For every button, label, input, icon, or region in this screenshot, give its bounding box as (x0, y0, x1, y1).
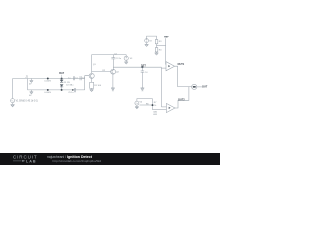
ground (on bottom rail) (29, 90, 33, 97)
voltage source V2 (145, 39, 153, 43)
wire top rail (13, 78, 85, 80)
svg-text:R4: R4 (159, 49, 163, 51)
wire Q1 collector (91, 55, 93, 74)
wire V4 to node (140, 104, 153, 106)
wire bottom rail (28, 89, 85, 91)
svg-text:Q2: Q2 (116, 72, 120, 74)
CircuitLab logo (13, 154, 38, 163)
capacitor C5 (75, 88, 76, 92)
wire junction J1 vertical between rails (27, 79, 29, 90)
transistor Q2 (111, 69, 120, 74)
resistor R3 (155, 40, 162, 44)
wire U1 output (175, 66, 192, 86)
footer bar (0, 153, 220, 165)
diode D2 (60, 85, 72, 90)
transistor Q1 (89, 64, 96, 78)
svg-text:C4: C4 (145, 72, 149, 74)
wire V4 top loop (137, 99, 153, 102)
ground (on top rail) (29, 79, 33, 86)
svg-text:0.000V: 0.000V (44, 92, 51, 94)
capacitor C1 (73, 76, 74, 80)
voltage source V4 (135, 101, 143, 105)
wire V2 to divider (147, 36, 157, 39)
svg-text:V1 SIN(0 0.45 1k 0 0): V1 SIN(0 0.45 1k 0 0) (16, 101, 38, 103)
ground (below V3) (124, 60, 128, 64)
svg-text:D1 1N: D1 1N (64, 82, 70, 84)
node J1 flag (25, 76, 28, 78)
junction dot node E (152, 104, 154, 106)
wire signal drop to U2 (160, 67, 162, 107)
svg-text:1u: 1u (71, 85, 73, 87)
junction dot 2 bottom rail (72, 89, 74, 91)
ground (below C4) (141, 88, 145, 91)
wire tap to op-amp plus input (165, 38, 167, 64)
svg-text:DET: DET (141, 65, 146, 68)
wire U2 output (175, 87, 189, 108)
wire Q1 collector to Q2 base (92, 71, 111, 73)
svg-text:BAT: BAT (59, 72, 64, 75)
ground (below V4) (135, 105, 139, 109)
svg-text:V2: V2 (149, 40, 152, 42)
node A (dot on top rail) (44, 78, 51, 83)
wire Q1 emitter (91, 78, 93, 82)
svg-text:http://circuitlab.com/c/21q21p: http://circuitlab.com/c/21q21p6uv5k2 (53, 159, 102, 163)
voltage source V1 (11, 99, 38, 103)
op-amp U2 (166, 103, 175, 112)
capacitor C2 (80, 76, 85, 80)
svg-text:REF: REF (164, 37, 169, 39)
svg-text:C3 1u: C3 1u (116, 58, 121, 60)
junction dot bottom rail (61, 89, 63, 91)
svg-text:Q1: Q1 (93, 64, 97, 66)
svg-text:0.000V: 0.000V (44, 80, 51, 82)
op-amp U1 (166, 62, 175, 71)
svg-text:R7: R7 (154, 102, 158, 104)
indicator lamp LED1 (192, 84, 197, 89)
wire lamp output (197, 86, 202, 88)
svg-text:OUT1: OUT1 (178, 63, 185, 66)
voltage source V3 (124, 55, 133, 61)
ground (below V2) (145, 43, 149, 47)
svg-text:LAB: LAB (26, 160, 37, 164)
svg-text:R3: R3 (159, 41, 163, 43)
ground (below R4) (155, 52, 159, 55)
node D junction dot on top rail (59, 72, 64, 79)
diode D1 (60, 80, 70, 84)
wire U2 minus input (153, 109, 167, 111)
ground (below V1) (11, 103, 15, 107)
wire node vertical (152, 99, 154, 110)
svg-text:C5 1u: C5 1u (68, 92, 73, 94)
svg-text:LM3: LM3 (153, 114, 158, 116)
wire V1 to top rail (12, 79, 14, 99)
wire divider tap (157, 45, 166, 47)
svg-text:J1: J1 (25, 76, 28, 78)
wire riser to Q1 base (85, 76, 90, 90)
svg-text:0V: 0V (29, 83, 32, 85)
wire between R3 R4 (156, 44, 158, 48)
wire Q2 emitter (112, 74, 114, 88)
node B junction dot (141, 65, 146, 69)
svg-text:OUT: OUT (202, 85, 208, 88)
svg-text:V4: V4 (140, 102, 143, 104)
svg-text:0V: 0V (29, 95, 32, 97)
wire collector top rail (92, 54, 127, 56)
capacitor C3 (111, 55, 121, 70)
svg-text:OUT2: OUT2 (178, 98, 185, 101)
capacitor C4 (141, 67, 149, 88)
svg-text:V3: V3 (130, 58, 133, 60)
resistor R1 (Q1 emitter box) (90, 82, 102, 88)
ground (below R1) (90, 88, 94, 91)
ground (below Q2) (111, 88, 115, 91)
svg-text:1u: 1u (68, 77, 70, 79)
wire Q2 collector node to comparators (113, 66, 161, 68)
node B (dot on bottom rail) (44, 89, 51, 94)
wire minus input stub U1 (161, 67, 166, 69)
svg-text:1k: 1k (154, 105, 156, 107)
svg-text:R1 100: R1 100 (94, 85, 102, 87)
resistor R4 (155, 48, 162, 52)
wire U2 plus stub (161, 106, 166, 108)
